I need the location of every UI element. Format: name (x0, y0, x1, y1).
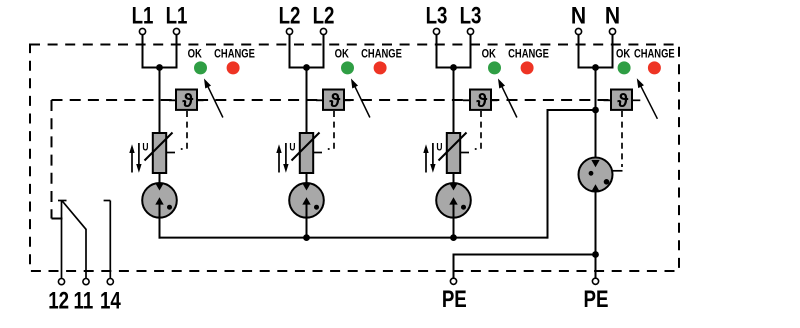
wire: N bracket bar (578, 67, 614, 69)
svg-text:L1: L1 (132, 2, 154, 29)
N spark gap dot right (604, 179, 610, 185)
LED OK (green) N (618, 61, 631, 74)
node: L3 junction dot (450, 64, 457, 71)
signalling dashed line foot (52, 218, 65, 220)
disconnector box side ticks 1 (169, 99, 176, 101)
terminal PE right circle (592, 278, 598, 284)
LED OK (green) 2 (341, 61, 354, 74)
disconnector box left tick N (604, 99, 612, 101)
svg-text:L2: L2 (279, 2, 301, 29)
LED CHANGE (red) 2 (374, 61, 387, 74)
LED OK (green) 3 (488, 61, 501, 74)
signalling dashed line vertical (51, 100, 53, 219)
spark gap right tick N (613, 170, 623, 172)
wire: L1 right lead down (176, 35, 178, 69)
wire+arrow spark gap bottom electrode 1 (159, 204, 161, 239)
arrow into N spark gap top (591, 160, 599, 167)
terminal N right circle (609, 28, 615, 34)
svg-text:L3: L3 (460, 2, 482, 29)
voltage U arrows symbol 3 (425, 152, 427, 173)
disconnector box side ticks 2 (316, 99, 323, 101)
spark gap trigger dot 1 (167, 205, 172, 210)
varistor disconnect tick 2 (313, 152, 322, 154)
remote contact: terminal 14 lead (109, 201, 111, 279)
voltage U arrows symbol 1 (131, 152, 133, 173)
svg-text:OK: OK (188, 48, 202, 61)
svg-text:CHANGE: CHANGE (634, 48, 675, 61)
svg-text:OK: OK (482, 48, 496, 61)
wire: L3 left lead down (436, 35, 438, 69)
terminal L3 right circle (467, 28, 473, 34)
signalling dashed line horizontal (52, 99, 612, 101)
LED OK (green) 1 (194, 61, 207, 74)
svg-text:L1: L1 (166, 2, 188, 29)
node: N bus junction dot (592, 107, 599, 114)
N spark gap dot left (589, 171, 594, 176)
wire: PE link horizontal (454, 254, 596, 256)
terminal 14 circle (107, 279, 113, 285)
wire: L1 left lead down (142, 35, 144, 69)
varistor RV3 (447, 133, 460, 173)
svg-text:11: 11 (74, 287, 94, 314)
spark gap G2 (289, 183, 324, 218)
thermal disconnector box U2 (323, 90, 344, 110)
indicator arrow 2 (351, 79, 358, 89)
svg-text:ϑ: ϑ (476, 90, 488, 112)
LED CHANGE (red) 3 (521, 61, 534, 74)
wire: L3 bracket bar (436, 67, 472, 69)
node: bus junction L2 (303, 234, 310, 241)
node: L1 junction dot (156, 64, 163, 71)
svg-text:OK: OK (616, 48, 630, 61)
spark gap G3 (436, 183, 471, 218)
node: bus junction L3 (450, 234, 457, 241)
indicator arrow 1 (204, 79, 211, 89)
svg-text:OK: OK (335, 48, 349, 61)
wire: L2 bracket bar (289, 67, 325, 69)
wire: L2 left lead down (289, 35, 291, 69)
mechanical link dashes 1 (181, 111, 187, 149)
outer dashed enclosure border (30, 45, 679, 272)
disconnector box side ticks 3 (463, 99, 470, 101)
terminal L2 right circle (320, 28, 326, 34)
wire: bus riser to N (548, 110, 596, 239)
spark gap trigger dot 3 (461, 205, 466, 210)
terminal PE left circle (450, 278, 456, 284)
svg-text:N: N (605, 2, 620, 29)
svg-text:U: U (142, 141, 148, 153)
wire: L2 right lead down (323, 35, 325, 69)
wire: N left lead down (578, 35, 580, 69)
remote contact: fixed contact tick 12 (58, 200, 67, 202)
svg-text:L3: L3 (426, 2, 448, 29)
svg-text:ϑ: ϑ (182, 90, 194, 112)
mechanical link dashes 3 (475, 111, 481, 149)
spark gap trigger dot 2 (314, 205, 319, 210)
svg-text:ϑ: ϑ (329, 90, 341, 112)
node: PE junction dot on N line (592, 251, 599, 258)
svg-text:12: 12 (48, 287, 69, 314)
svg-text:N: N (571, 2, 586, 29)
svg-text:CHANGE: CHANGE (361, 48, 402, 61)
indicator arrow 3 (498, 79, 505, 89)
disconnector box right tick N (632, 99, 640, 101)
N-PE spark gap (579, 158, 613, 192)
wire: right PE lead down (595, 255, 597, 279)
wire+arrow spark gap bottom electrode 3 (453, 204, 455, 239)
thermal disconnector box N (611, 90, 632, 110)
svg-text:PE: PE (442, 286, 467, 313)
mechanical link dashes 2 (328, 111, 334, 149)
remote contact: terminal 12 lead (61, 201, 63, 279)
remote contact: terminal 11 lead (85, 229, 87, 279)
svg-text:CHANGE: CHANGE (214, 48, 255, 61)
remote contact: switch blade (62, 201, 86, 230)
terminal L1 right circle (173, 28, 179, 34)
indicator arrow N (637, 78, 644, 88)
varistor RV1 (153, 133, 166, 173)
node: N junction dot (592, 64, 599, 71)
terminal N left circle (575, 28, 581, 34)
terminal L1 left circle (139, 28, 145, 34)
varistor disconnect tick 3 (460, 152, 469, 154)
wire+arrow into spark gap top 3 (453, 172, 455, 184)
remote contact: fixed contact tick 14 (104, 200, 111, 202)
wire: L3 main line to varistor (453, 68, 455, 135)
terminal L2 left circle (286, 28, 292, 34)
svg-text:U: U (436, 141, 442, 153)
LED CHANGE (red) 1 (227, 61, 240, 74)
svg-text:14: 14 (100, 287, 121, 314)
terminal 11 circle (83, 279, 89, 285)
wire: L1 main line to varistor (159, 68, 161, 135)
svg-text:CHANGE: CHANGE (508, 48, 549, 61)
wire: common bus (159, 237, 548, 239)
svg-text:PE: PE (584, 286, 609, 313)
node: L2 junction dot (303, 64, 310, 71)
varistor disconnect tick 1 (166, 152, 175, 154)
wire: L1 bracket bar (142, 67, 178, 69)
svg-text:U: U (289, 141, 295, 153)
wire: N main line down (595, 68, 597, 162)
LED CHANGE (red) N (648, 61, 661, 74)
wire+arrow spark gap bottom electrode 2 (306, 204, 308, 239)
wire: left PE lead down (453, 254, 455, 279)
svg-text:ϑ: ϑ (617, 90, 629, 112)
wire: N right lead down (612, 35, 614, 69)
wire+arrow N spark gap bottom electrode (595, 191, 597, 256)
thermal disconnector box U3 (470, 90, 491, 110)
wire: L3 right lead down (470, 35, 472, 69)
wire: L2 main line to varistor (306, 68, 308, 135)
mechanical link dashes N (621, 111, 623, 167)
thermal disconnector box U1 (176, 90, 197, 110)
svg-text:L2: L2 (313, 2, 335, 29)
varistor RV2 (300, 133, 313, 173)
wire+arrow into spark gap top 2 (306, 172, 308, 184)
terminal 12 circle (58, 279, 64, 285)
voltage U arrows symbol 2 (278, 152, 280, 173)
terminal L3 left circle (433, 28, 439, 34)
spark gap G1 (142, 183, 177, 218)
wire+arrow into spark gap top 1 (159, 172, 161, 184)
